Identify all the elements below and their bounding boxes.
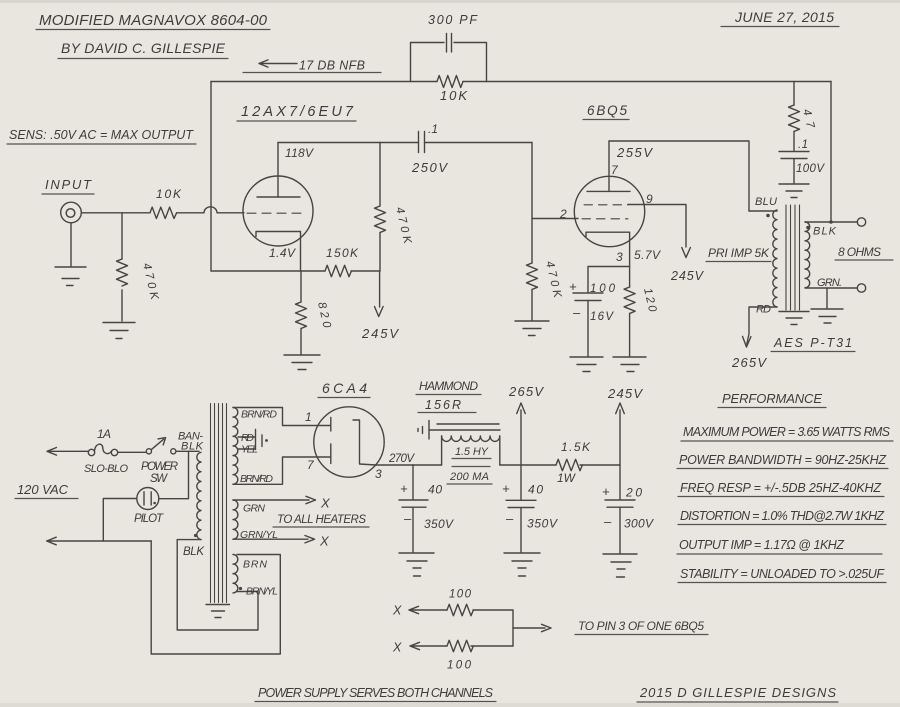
- svg-text:265V: 265V: [731, 355, 767, 370]
- switch SW (power): [118, 451, 147, 453]
- capacitor C1 40uF/350V: [412, 465, 414, 500]
- svg-text:PERFORMANCE: PERFORMANCE: [722, 391, 822, 406]
- svg-text:DISTORTION = 1.0% THD@2.7W 1KH: DISTORTION = 1.0% THD@2.7W 1KHZ: [680, 509, 884, 523]
- svg-text:1W: 1W: [557, 471, 577, 485]
- svg-text:200 MA: 200 MA: [449, 471, 489, 483]
- svg-text:BRN/RD: BRN/RD: [241, 409, 277, 421]
- wire/arrow 265V tap: [517, 403, 526, 500]
- V2 control grid (dashed): [582, 218, 628, 220]
- svg-text:100: 100: [449, 589, 472, 601]
- svg-text:FREQ RESP = +/-.5DB 25HZ-40KHZ: FREQ RESP = +/-.5DB 25HZ-40KHZ: [680, 481, 881, 495]
- NFB arrow: [259, 60, 297, 67]
- OPT secondary winding: [805, 222, 810, 288]
- resistor 1.5K 1W: [556, 459, 582, 470]
- svg-text:GRN: GRN: [243, 503, 265, 515]
- node BLU: [766, 214, 770, 218]
- svg-text:1.5 HY: 1.5 HY: [455, 446, 489, 458]
- svg-text:100V: 100V: [796, 163, 825, 175]
- fuse F1 1A SLO-BLO: [88, 449, 94, 455]
- wire to pilot: [159, 451, 189, 498]
- V1 plate: [257, 143, 300, 198]
- wire with arrow (hum top): [409, 606, 447, 613]
- svg-text:255V: 255V: [616, 145, 653, 160]
- NFB main wire: [211, 81, 437, 83]
- wire neutral loop to BRN winding: [151, 541, 280, 654]
- svg-text:350V: 350V: [527, 517, 558, 531]
- svg-text:1A: 1A: [97, 427, 111, 441]
- svg-text:.1: .1: [798, 139, 808, 151]
- cathode feedback wire: [211, 270, 380, 272]
- ground (bypass cap): [570, 357, 603, 372]
- wire/arrow 245V tap: [616, 403, 625, 500]
- arrow to 245V supply: [375, 271, 384, 317]
- svg-text:245V: 245V: [361, 326, 399, 341]
- wire V2 plate to OPT: [609, 141, 749, 211]
- svg-text:245V: 245V: [607, 386, 643, 401]
- node primary bottom: [194, 534, 197, 537]
- svg-text:3: 3: [375, 467, 382, 481]
- OPT core: [786, 205, 800, 310]
- svg-text:GRN.: GRN.: [817, 277, 842, 289]
- PT HV secondary winding: [233, 408, 238, 485]
- svg-text:10K: 10K: [156, 187, 182, 201]
- center tap RD/YEL: [238, 430, 262, 450]
- svg-text:AES P-T31: AES P-T31: [773, 336, 852, 350]
- svg-text:40: 40: [528, 483, 543, 497]
- resistor 820 (cathode): [300, 271, 302, 302]
- svg-text:2: 2: [559, 207, 567, 221]
- ground (V2 grid resistor): [515, 321, 549, 336]
- svg-text:–: –: [505, 511, 514, 526]
- svg-text:TO PIN 3 OF ONE 6BQ5: TO PIN 3 OF ONE 6BQ5: [578, 619, 704, 633]
- svg-text:40: 40: [428, 483, 442, 497]
- wire HV bottom BRN/RD to 6CA4 pin7: [233, 457, 330, 484]
- resistor 150K: [325, 265, 351, 276]
- svg-text:X: X: [320, 496, 331, 511]
- wire secondary bottom to terminal: [805, 287, 857, 289]
- V2 plate: [587, 141, 630, 191]
- PT bias winding BRN: [233, 555, 238, 593]
- svg-text:STABILITY = UNLOADED TO >.025U: STABILITY = UNLOADED TO >.025UF: [680, 567, 885, 581]
- wire GRN/YL heater lead with arrow: [233, 536, 315, 543]
- svg-text:PILOT: PILOT: [134, 513, 164, 525]
- OPT primary bottom lead RD: [743, 307, 778, 347]
- svg-text:+: +: [400, 481, 408, 496]
- svg-text:POWER SUPPLY SERVES BOTH CHANN: POWER SUPPLY SERVES BOTH CHANNELS: [258, 686, 494, 700]
- pentode V2 6BQ5 envelope: [574, 176, 644, 246]
- wire AC hot with arrow: [47, 448, 88, 456]
- svg-text:–: –: [603, 514, 612, 529]
- triode V1 12AX7 envelope: [243, 176, 313, 246]
- V3 plate 1: [330, 418, 332, 432]
- resistor 470K (input shunt): [121, 213, 123, 259]
- V3 cathode: [353, 420, 376, 465]
- svg-text:5.7V: 5.7V: [634, 248, 661, 262]
- svg-text:118V: 118V: [285, 146, 314, 160]
- svg-text:156R: 156R: [425, 398, 461, 412]
- capacitor .1/100V (zobel): [779, 152, 809, 184]
- resistor 100 (top): [447, 604, 473, 615]
- svg-text:245V: 245V: [670, 269, 705, 283]
- ground (C1): [399, 553, 434, 576]
- wire AC neutral with arrow: [47, 537, 152, 545]
- capacitor 100uF/16V (cathode bypass): [588, 267, 630, 293]
- svg-text:8 OHMS: 8 OHMS: [838, 245, 881, 259]
- choke L1 core: [429, 424, 500, 430]
- capacitor 300PF: [447, 34, 452, 53]
- V3 plate 2: [330, 444, 332, 464]
- ground (PT core): [206, 605, 230, 618]
- wire with arrow (hum bottom): [410, 642, 447, 649]
- wire resistor to grid with crossover hop: [177, 207, 244, 213]
- wire grid node to V2: [532, 218, 578, 220]
- svg-text:–: –: [572, 305, 581, 320]
- svg-text:RD: RD: [241, 432, 254, 444]
- svg-text:HAMMOND: HAMMOND: [419, 379, 478, 393]
- svg-text:BLK: BLK: [183, 546, 205, 558]
- svg-text:POWER: POWER: [141, 461, 178, 473]
- svg-text:MODIFIED MAGNAVOX 8604-00: MODIFIED MAGNAVOX 8604-00: [39, 12, 268, 29]
- V2 cathode: [586, 232, 630, 287]
- V1 cathode: [256, 232, 301, 272]
- capacitor C3 20uF/300V: [605, 500, 635, 553]
- svg-text:+: +: [502, 481, 510, 496]
- ground (C2): [504, 553, 540, 576]
- capacitor .1 coupling: [419, 132, 425, 153]
- resistor 10K (feedback): [437, 76, 463, 88]
- OPT primary winding: [749, 210, 777, 307]
- svg-text:3: 3: [616, 250, 623, 264]
- wire pilot to AC neutral: [103, 499, 137, 542]
- wire secondary top to terminal: [805, 221, 857, 223]
- V2 grid node vertical wire: [531, 143, 533, 264]
- svg-text:BRN/RD: BRN/RD: [240, 473, 273, 485]
- svg-text:2015 D GILLESPIE DESIGNS: 2015 D GILLESPIE DESIGNS: [639, 685, 836, 700]
- svg-text:300V: 300V: [624, 517, 654, 531]
- wire BLK lead loop: [177, 540, 258, 630]
- svg-text:RD: RD: [756, 304, 771, 316]
- svg-text:MAXIMUM POWER = 3.65 WATTS RMS: MAXIMUM POWER = 3.65 WATTS RMS: [683, 425, 891, 439]
- svg-text:TO ALL HEATERS: TO ALL HEATERS: [277, 514, 366, 526]
- svg-text:9: 9: [646, 192, 653, 206]
- svg-text:120 VAC: 120 VAC: [17, 482, 69, 497]
- resistor 10K (input): [150, 207, 177, 218]
- svg-text:265V: 265V: [508, 384, 544, 399]
- svg-text:X: X: [392, 641, 402, 655]
- PT primary winding: [197, 452, 201, 539]
- svg-text:+: +: [569, 279, 577, 294]
- svg-text:POWER BANDWIDTH = 90HZ-25KHZ: POWER BANDWIDTH = 90HZ-25KHZ: [679, 453, 886, 467]
- input jack J1: [61, 202, 82, 223]
- V2 screen grid (dashed): [584, 204, 628, 206]
- svg-text:1.4V: 1.4V: [269, 246, 296, 260]
- capacitor C2 40uF/350V: [506, 500, 536, 552]
- choke L1 winding: [442, 436, 500, 441]
- svg-text:–: –: [403, 511, 412, 526]
- output terminal (hot): [857, 218, 865, 226]
- resistor 100 (bottom): [447, 640, 473, 651]
- wire screen to 245V arrow: [628, 205, 690, 258]
- svg-text:BLK: BLK: [813, 226, 837, 238]
- ground (OPT core): [779, 312, 809, 325]
- B+ rail wire: [376, 464, 442, 466]
- PT heater winding: [233, 500, 238, 539]
- svg-text:100: 100: [590, 283, 616, 295]
- output terminal (common): [857, 284, 865, 292]
- ground (C3): [603, 554, 637, 577]
- ground (choke frame): [418, 421, 429, 440]
- svg-text:INPUT: INPUT: [45, 177, 92, 192]
- wire cap to V2 grid node: [425, 142, 533, 144]
- svg-text:YEL: YEL: [241, 444, 258, 456]
- wire HV top BRN/RD to 6CA4 pin1: [233, 408, 330, 426]
- svg-text:X: X: [392, 604, 402, 618]
- svg-text:150K: 150K: [326, 246, 359, 260]
- svg-text:SW: SW: [150, 473, 168, 485]
- wire jack to resistor: [81, 212, 150, 214]
- rectifier V3 6CA4 envelope: [314, 407, 384, 477]
- svg-text:1: 1: [305, 410, 312, 424]
- ground (input shunt): [103, 323, 135, 339]
- ground (120): [613, 357, 646, 372]
- ground (input jack): [55, 223, 86, 286]
- resistor 120 (cathode): [624, 287, 635, 313]
- svg-text:270V: 270V: [388, 453, 415, 465]
- svg-text:GRN/YL: GRN/YL: [240, 529, 278, 541]
- PT core: [211, 404, 227, 603]
- wire switch to primary: [176, 450, 199, 452]
- NFB left vertical wire: [210, 82, 212, 272]
- svg-text:BLU: BLU: [755, 196, 777, 208]
- svg-text:10K: 10K: [440, 88, 468, 103]
- wire GRN heater lead with arrow: [233, 496, 316, 503]
- svg-text:250V: 250V: [411, 160, 448, 175]
- svg-text:16V: 16V: [590, 311, 614, 323]
- pilot lamp: [137, 488, 159, 510]
- svg-text:17 DB NFB: 17 DB NFB: [299, 59, 365, 73]
- node BLK: [806, 226, 810, 230]
- svg-text:X: X: [319, 534, 330, 549]
- wire arrow to pin 3: [513, 624, 551, 631]
- svg-text:JUNE 27, 2015: JUNE 27, 2015: [734, 9, 834, 25]
- feedback branch box wire: [411, 43, 487, 82]
- svg-text:350V: 350V: [424, 517, 454, 531]
- resistor 47 (zobel): [793, 82, 795, 106]
- svg-text:BRN/YL: BRN/YL: [246, 586, 278, 598]
- svg-text:.1: .1: [428, 122, 438, 136]
- svg-text:6BQ5: 6BQ5: [587, 103, 627, 118]
- node NFB junction: [829, 220, 833, 224]
- svg-text:SENS: .50V AC = MAX OUTPUT: SENS: .50V AC = MAX OUTPUT: [9, 128, 194, 142]
- svg-text:100: 100: [447, 660, 472, 672]
- V1 grid (dashed): [247, 212, 303, 214]
- resistor 470K (plate load): [379, 143, 381, 207]
- NFB takeoff vertical wire: [830, 82, 832, 223]
- ground (820): [284, 355, 320, 370]
- svg-text:SLO-BLO: SLO-BLO: [84, 463, 128, 475]
- svg-text:OUTPUT IMP = 1.17Ω @ 1KHZ: OUTPUT IMP = 1.17Ω @ 1KHZ: [679, 538, 844, 552]
- ground (zobel): [779, 184, 809, 198]
- ground (secondary): [811, 288, 843, 323]
- wire plate to coupling cap: [278, 142, 419, 144]
- svg-text:BY DAVID C. GILLESPIE: BY DAVID C. GILLESPIE: [61, 40, 226, 56]
- svg-text:PRI IMP 5K: PRI IMP 5K: [708, 246, 770, 260]
- svg-text:+: +: [602, 484, 610, 499]
- svg-text:BRN: BRN: [243, 559, 267, 571]
- node BRN/YL: [239, 587, 242, 590]
- svg-text:1.5K: 1.5K: [561, 440, 591, 454]
- resistor 470K (V2 grid): [527, 263, 538, 289]
